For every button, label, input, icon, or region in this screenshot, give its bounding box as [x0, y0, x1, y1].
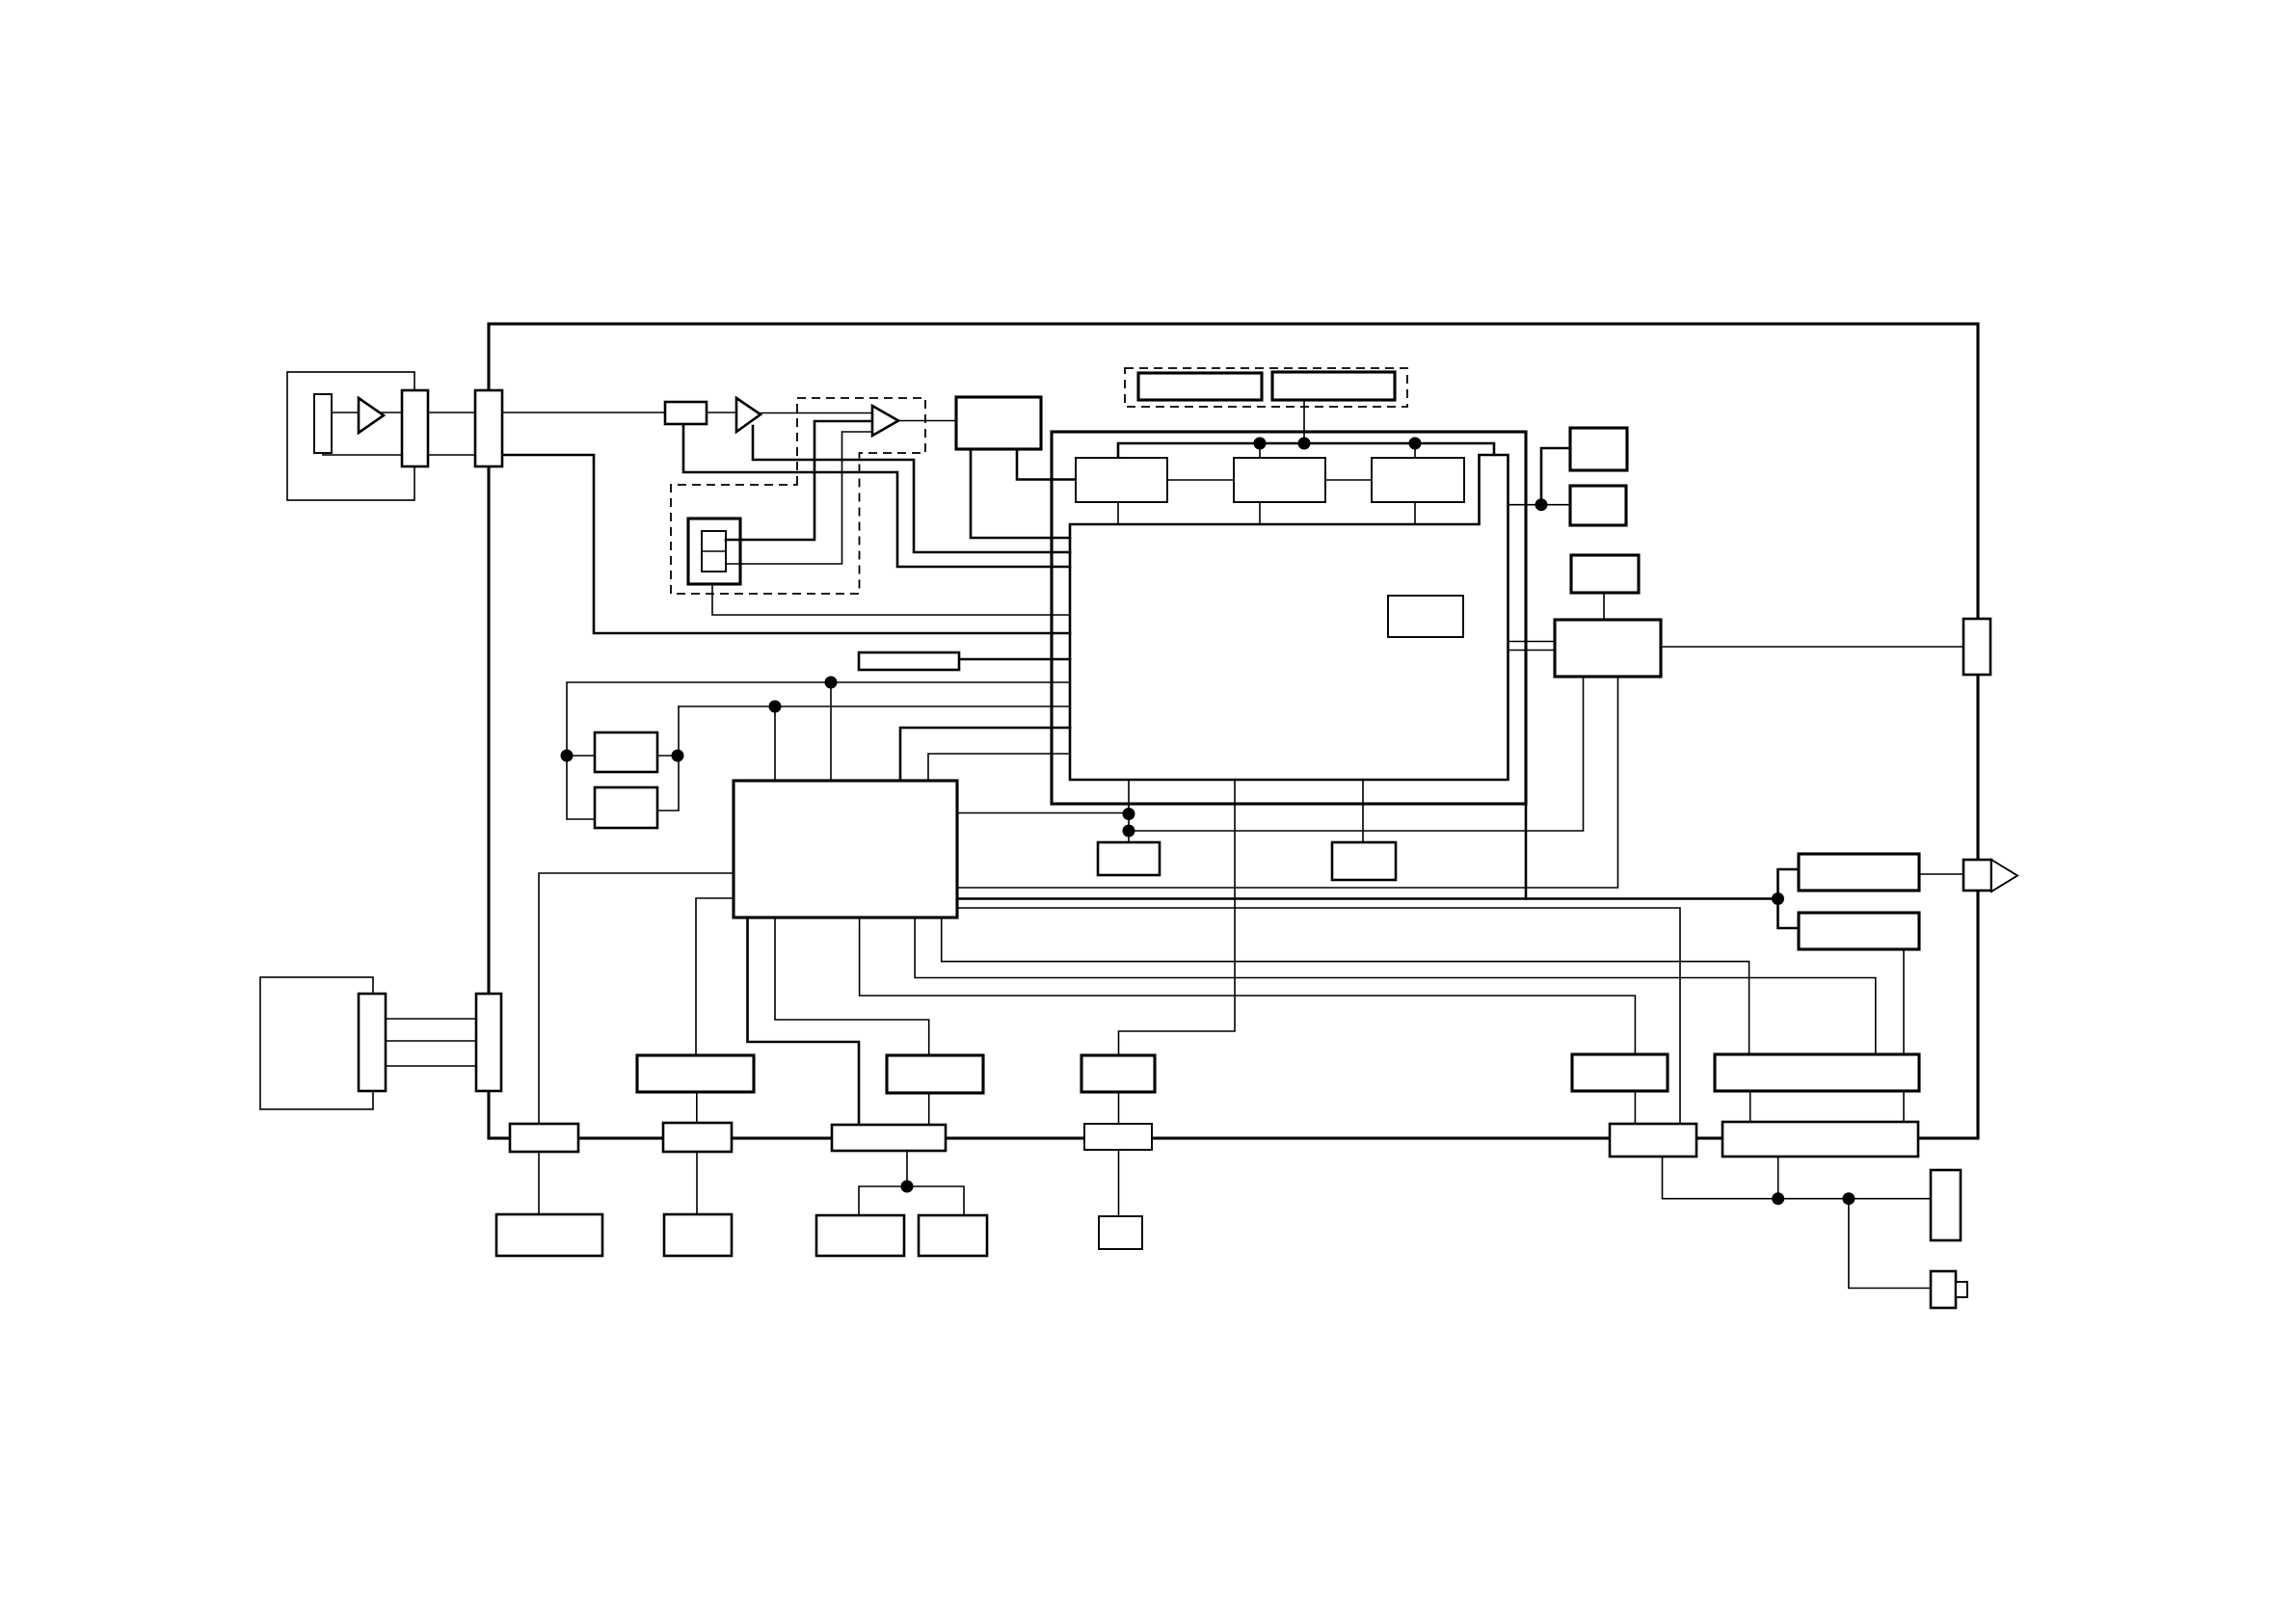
wire: C5 bottom to dot	[906, 1151, 908, 1186]
wire: thick rail from block BB2 to LR junction	[957, 897, 1778, 900]
block R3	[1571, 555, 1639, 593]
wire: B1 bottom to U11 top edge	[1117, 502, 1119, 524]
plug jack nub	[1956, 1282, 1967, 1297]
wire: IC-B lower output to T2 lower input	[724, 432, 872, 564]
wire: R4 output to border connector BC1	[1661, 646, 1963, 648]
bottom connector C4	[663, 1123, 732, 1152]
junction dot P1 left	[561, 750, 574, 762]
junction dot net1	[825, 677, 838, 689]
memory rect W2	[1272, 372, 1395, 400]
block D1	[637, 1055, 754, 1092]
wire: G2 bottom to C8	[1749, 1091, 1751, 1122]
wire: block BB2 bottom lead to G2 top riser1	[942, 918, 1749, 1054]
wire: U11 right edge tap to R1/R2 junction	[1508, 504, 1571, 506]
wire: left dot down to P2 left	[567, 756, 595, 819]
wire: net1 branch down to block BB2 top	[830, 682, 832, 781]
junction dot C7 chain 2	[1842, 1192, 1855, 1205]
wire: P-row net2 from corner right to U11 left pin	[679, 705, 1070, 707]
wire: T1 lower branch to U11 left pin	[753, 426, 1070, 552]
wire: B3 bottom to U11 top edge	[1414, 502, 1416, 524]
bottom connector C7	[1610, 1124, 1696, 1157]
junction dot S1 chain lower	[1123, 825, 1135, 838]
wire: block BB2 bottom lead to G2 top riser2	[915, 918, 1876, 1054]
amp triangle T2	[872, 406, 898, 436]
main board outline border	[489, 324, 1978, 1138]
wire: dot chain across to R4 bottom-left lead	[1129, 677, 1584, 831]
wire: B2 bottom to U11 top edge	[1259, 502, 1261, 524]
resistor SR	[665, 402, 707, 424]
wire: bus stub down to B2 top	[1259, 443, 1261, 458]
block H1	[887, 1055, 983, 1093]
wire: block BB2 left input from C1 riser	[539, 873, 734, 1124]
block P1	[595, 732, 657, 772]
wire: net2 corner down to P2 right	[657, 706, 679, 811]
wire: block BB2 top stub2 to U11 left pin	[928, 754, 1070, 781]
block E1	[816, 1215, 904, 1256]
block S2	[1332, 842, 1396, 880]
junction dot S1 chain upper	[1123, 808, 1135, 820]
block E4	[664, 1214, 732, 1256]
block BB (RF eq)	[956, 397, 1041, 449]
wire: C8 bottom stub to dot	[1777, 1157, 1779, 1199]
connector CN1	[402, 390, 428, 466]
junction dot bus1	[1254, 438, 1267, 450]
wire: LR1 output to border connector BC2	[1919, 873, 1963, 875]
wire: net2 branch down to block BB2 top	[774, 706, 776, 781]
wire: H2 bottom to C6	[1118, 1092, 1120, 1124]
block E2	[919, 1215, 987, 1256]
wire: resistor SR output to amp T1	[707, 412, 736, 413]
wire: dot to E2 top	[907, 1186, 964, 1215]
wire: LR junction up to LR1 left	[1778, 869, 1800, 899]
wire: block BB2 right output to S1 dot chain	[957, 812, 1129, 814]
wire: motor connA to connB harness lines	[386, 1018, 476, 1020]
wire: LR junction down to LR2 left	[1778, 899, 1800, 929]
motor mechanism box	[260, 977, 373, 1109]
huge inner IC U11 (notched top-right corner)	[1070, 455, 1508, 780]
junction dot bus2	[1298, 438, 1311, 450]
wire: block BB2 bottom lead to H1 top	[775, 918, 929, 1055]
block S1	[1098, 842, 1160, 875]
pickup assembly box	[287, 372, 414, 500]
border connector BC1	[1963, 619, 1990, 675]
wire: U11 bottom pin down to S2	[1362, 780, 1364, 842]
wire: U11 bottom pin to H2 via jog	[1119, 780, 1236, 1055]
memory rect W1	[1138, 373, 1262, 400]
wire: R1 left lead down to junction	[1541, 448, 1570, 505]
wire: bus stub down to B3 top	[1414, 443, 1416, 458]
wire: IC-B bottom output to U11 left pin	[712, 584, 1070, 615]
wire: IC outer right edge power extension down to thick rail	[1525, 804, 1528, 899]
wire: H1 bottom to C5	[928, 1093, 930, 1125]
junction dot C7 chain 1	[1772, 1192, 1784, 1205]
wire: P1 right side to dot	[657, 755, 678, 757]
bottom connector C6	[1084, 1124, 1152, 1150]
wire: P1 left dot to P1	[567, 755, 595, 757]
wire: main RF signal pickup to conn1 to conn2 to resistor	[332, 412, 402, 413]
block LR2	[1799, 913, 1919, 949]
block G2	[1715, 1054, 1919, 1091]
IC-B box inside dashed group	[688, 519, 740, 584]
connector V1	[1931, 1170, 1961, 1240]
wire: BB bottom-left to U11 top-left pin	[971, 449, 1070, 538]
border connector BC2 with output arrow	[1963, 860, 1991, 891]
block R1	[1570, 428, 1627, 470]
junction dot R1R2	[1535, 498, 1548, 511]
wire: R3 bottom to R4 top	[1603, 593, 1605, 620]
block B3	[1372, 458, 1464, 502]
wire: resistor SR bottom branch to U11 left pin	[683, 424, 1070, 567]
plug jack body	[1931, 1271, 1956, 1308]
wire: U11 bottom pin down through dots to S1	[1128, 780, 1130, 842]
wire: IC-B cell upper output stub	[726, 539, 742, 542]
wire: T2 output to block BB	[898, 420, 956, 422]
block E3	[496, 1214, 602, 1256]
laser diode element inside pickup	[314, 394, 332, 453]
servo system control block BB2	[734, 781, 957, 918]
wire: BB bottom-right to B1 left input	[1017, 449, 1076, 480]
wire: bus line over B-row from B1 top to notch	[1118, 443, 1494, 458]
IC outer box U10	[1052, 432, 1526, 804]
block F1	[1099, 1216, 1142, 1249]
connector CNB on border	[476, 994, 501, 1091]
wire: pickup lower line through connectors then down-right to U11 pin	[323, 453, 402, 455]
bottom connector C8	[1722, 1122, 1918, 1157]
junction dot P1 right	[672, 750, 684, 762]
wire: D1 bottom to C4	[696, 1092, 698, 1123]
dashed group box around T2 amp and IC-B	[671, 398, 925, 594]
block H2	[1081, 1055, 1155, 1092]
wire: C7 bottom down and right to V1	[1663, 1157, 1932, 1199]
block R2	[1570, 486, 1626, 525]
wire: IC-B upper output to T2 mid input	[724, 421, 872, 540]
wire: R4 bottom-right lead down and left to block BB2	[957, 677, 1618, 888]
wire: conn2 lower output to U11 left pin	[502, 455, 1070, 633]
wire: block BB2 bottom thick lead to C5	[748, 918, 860, 1125]
wire: LR2 bottom right lead to C8 top	[1903, 949, 1905, 1122]
junction dot LR feed	[1772, 892, 1784, 905]
connector CN2 on border	[475, 390, 502, 466]
amp triangle T1	[736, 398, 761, 432]
wire: P-row net1 from P1 left dot up and right to U11 left pin	[567, 682, 1070, 756]
pickup amp triangle	[359, 398, 384, 433]
junction dot E1E2	[901, 1181, 914, 1193]
sub-block inside U11	[1388, 596, 1463, 637]
wire: IC-B cell lower output stub	[726, 563, 742, 565]
IC-B inner cell	[702, 531, 726, 572]
block B1	[1076, 458, 1167, 502]
wire: block BB2 bottom lead to G1 top riser	[860, 918, 1636, 1055]
wire: C6 bottom to F1	[1118, 1150, 1120, 1216]
wire: C4 bottom to E4	[696, 1152, 698, 1214]
block P2	[595, 787, 657, 828]
block G1	[1572, 1054, 1668, 1091]
wire: dot to E1 top	[859, 1186, 907, 1215]
bottom connector C5	[832, 1125, 946, 1151]
wire: block BB2 output to C7 riser	[957, 908, 1680, 1124]
dashed box around top memory rects	[1125, 368, 1407, 407]
wire: block BB2 top stub to U11 left pin	[900, 728, 1070, 781]
block LR1	[1799, 854, 1919, 891]
wire: C1 bottom to E3	[538, 1152, 540, 1214]
block R4	[1555, 620, 1661, 677]
junction dot bus3	[1409, 438, 1422, 450]
wire: dot down and right to plug	[1849, 1199, 1931, 1289]
wire: B2 to B3 link	[1325, 479, 1372, 481]
block B2	[1234, 458, 1325, 502]
output arrow triangle	[1991, 860, 2017, 891]
wire: block BB2 left input from D1 riser	[696, 898, 734, 1055]
wire: bar resistor output to U11 left pin	[959, 658, 1070, 661]
wire: U11 right edge taps to R4 inputs	[1508, 641, 1556, 643]
connector CNA	[359, 994, 386, 1091]
bar resistor	[859, 652, 959, 670]
wire: memory rect W2 down to bus	[1303, 400, 1305, 443]
wire: amp T1 output to amp T2 input	[761, 412, 872, 414]
wire: B1 to B2 link	[1167, 479, 1234, 481]
IC-B inner cell divider	[702, 550, 726, 552]
wire: G1 bottom to C7	[1634, 1091, 1636, 1124]
bottom connector C1	[510, 1124, 578, 1152]
junction dot net2	[769, 701, 782, 713]
